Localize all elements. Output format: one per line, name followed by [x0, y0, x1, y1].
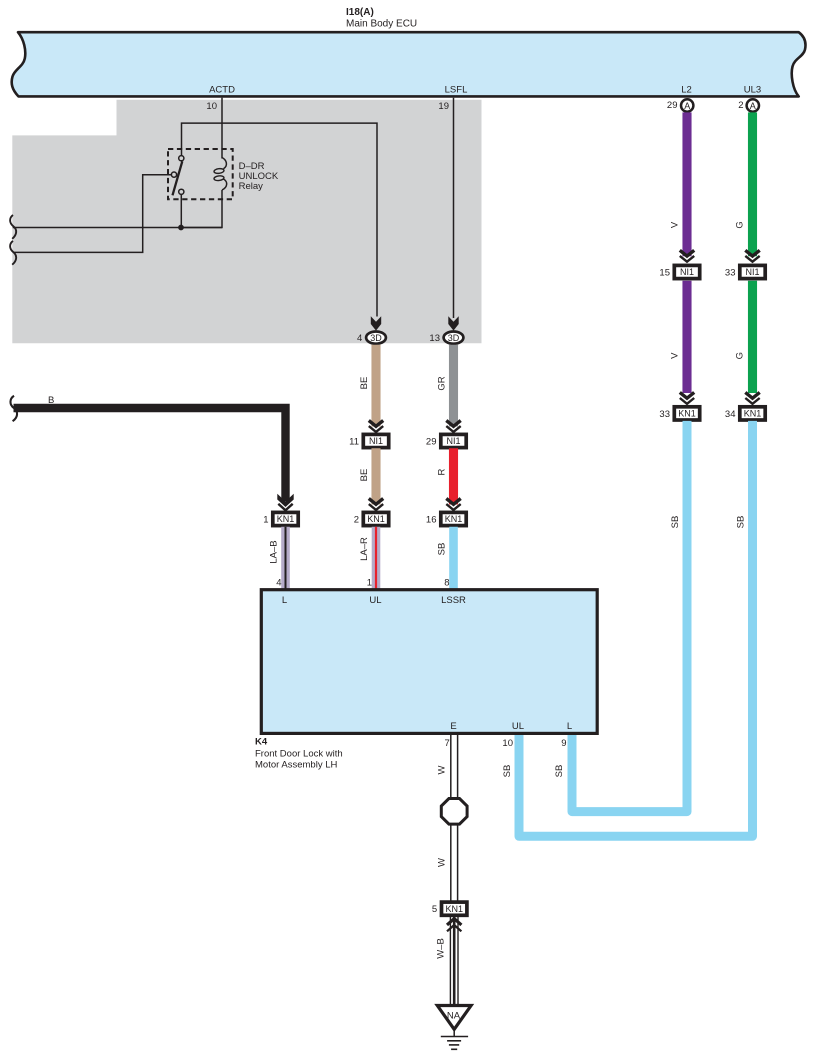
- svg-text:2: 2: [738, 100, 743, 111]
- svg-text:KN1: KN1: [445, 904, 463, 914]
- svg-text:3D: 3D: [448, 333, 460, 343]
- svg-text:4: 4: [357, 333, 362, 344]
- wire BE lower: [371, 448, 380, 504]
- svg-text:11: 11: [349, 437, 359, 448]
- svg-text:Front Door Lock with: Front Door Lock with: [255, 749, 343, 760]
- wire SB short: [449, 527, 458, 590]
- svg-text:NI1: NI1: [446, 436, 460, 446]
- arrow chevrons into KN1 #16: [446, 499, 460, 510]
- svg-text:W–B: W–B: [436, 938, 447, 959]
- svg-text:R: R: [436, 468, 447, 475]
- svg-text:4: 4: [276, 578, 281, 589]
- wire relay bus horizontal: [182, 123, 378, 316]
- relay box D-DR UNLOCK (dashed): [168, 149, 233, 199]
- connector KN1 #34: [740, 407, 765, 420]
- svg-text:E: E: [450, 721, 456, 732]
- connector KN1 #2: [363, 512, 388, 525]
- svg-text:A: A: [684, 101, 690, 111]
- svg-text:KN1: KN1: [367, 514, 385, 524]
- wire G lower: [748, 281, 757, 393]
- arrow chevrons into NI1 #33: [745, 250, 759, 261]
- connector NI1 #11: [363, 434, 388, 447]
- connector NI1 #29: [441, 434, 466, 447]
- svg-text:5: 5: [432, 904, 437, 915]
- svg-text:16: 16: [426, 515, 437, 526]
- svg-text:15: 15: [659, 268, 670, 279]
- connector KN1 #33: [674, 407, 699, 420]
- wire break squiggle B: [10, 396, 17, 421]
- arrow chevrons into NI1 #15: [680, 250, 694, 261]
- svg-text:1: 1: [367, 578, 372, 589]
- svg-text:LA–B: LA–B: [268, 540, 279, 563]
- svg-text:NI1: NI1: [745, 267, 759, 277]
- svg-text:LSFL: LSFL: [445, 85, 468, 96]
- svg-text:V: V: [670, 221, 681, 228]
- svg-text:UL3: UL3: [744, 85, 761, 96]
- svg-text:SB: SB: [436, 543, 447, 556]
- svg-text:9: 9: [561, 738, 566, 749]
- wire LA-R: [372, 527, 381, 590]
- switch blade: [173, 161, 183, 195]
- connector KN1 #1: [273, 512, 298, 525]
- wire left stub to node: [13, 227, 222, 229]
- svg-text:2: 2: [354, 515, 359, 526]
- svg-text:W: W: [437, 858, 448, 867]
- connector circle A #2: [747, 99, 759, 111]
- switch contact top: [179, 156, 184, 161]
- svg-text:KN1: KN1: [445, 514, 463, 524]
- switch contact middle: [171, 172, 176, 177]
- svg-text:SB: SB: [670, 516, 681, 529]
- svg-text:13: 13: [429, 333, 440, 344]
- ground triangle NA: [437, 1006, 471, 1030]
- svg-text:1: 1: [263, 515, 268, 526]
- connector KN1 #5: [442, 902, 467, 915]
- svg-text:G: G: [735, 352, 746, 359]
- wire V lower: [682, 281, 691, 393]
- svg-text:SB: SB: [502, 765, 513, 778]
- ground bar 2: [447, 1040, 461, 1042]
- svg-text:L: L: [282, 595, 287, 606]
- svg-text:L2: L2: [681, 85, 692, 96]
- Main Body ECU band I18(A): [12, 32, 806, 96]
- wire BE upper: [371, 345, 380, 427]
- ECU box K4: [261, 590, 597, 734]
- connector 3D #4: [366, 332, 386, 344]
- svg-text:29: 29: [667, 100, 678, 111]
- connector NI1 #15: [674, 265, 699, 278]
- svg-text:29: 29: [426, 437, 437, 448]
- svg-text:3D: 3D: [370, 333, 382, 343]
- svg-text:10: 10: [206, 101, 217, 112]
- switch contact bottom: [179, 189, 184, 194]
- arrow solid into KN1 #1: [277, 494, 293, 507]
- wire left stub to switch middle: [14, 175, 171, 253]
- svg-text:Motor Assembly LH: Motor Assembly LH: [255, 760, 337, 771]
- svg-text:BE: BE: [359, 469, 370, 482]
- svg-text:A: A: [750, 101, 756, 111]
- arrow chevrons into KN1 #2: [369, 499, 383, 510]
- svg-text:34: 34: [725, 409, 736, 420]
- arrow chevrons into NI1 #11: [369, 421, 383, 432]
- octagon connector: [441, 799, 467, 825]
- connector 3D #13: [444, 332, 464, 344]
- relay coil L (on ACTD wire): [222, 158, 227, 190]
- svg-text:33: 33: [659, 409, 670, 420]
- svg-text:I18(A): I18(A): [346, 7, 374, 18]
- svg-text:K4: K4: [255, 737, 268, 748]
- svg-text:NA: NA: [447, 1010, 461, 1021]
- wire GR upper: [449, 345, 458, 427]
- wire SB from KN1 #33 (inner U): [572, 421, 687, 812]
- wire ACTD pin10 vertical: [221, 98, 223, 159]
- wire break squiggle 1: [10, 215, 16, 239]
- connector NI1 #33: [740, 265, 765, 278]
- ground stem: [453, 1029, 455, 1036]
- svg-text:UL: UL: [512, 721, 524, 732]
- gray highlight region: [12, 100, 481, 343]
- connector circle A #29: [681, 99, 693, 111]
- wire LSFL pin19 vertical: [453, 98, 455, 318]
- svg-text:Relay: Relay: [239, 181, 264, 192]
- arrow chevrons into KN1 #34: [745, 392, 759, 403]
- wire R: [449, 448, 458, 504]
- ground bar 3: [449, 1044, 459, 1046]
- svg-text:KN1: KN1: [744, 409, 762, 419]
- svg-text:SB: SB: [736, 516, 747, 529]
- svg-text:KN1: KN1: [678, 409, 696, 419]
- svg-text:V: V: [670, 352, 681, 359]
- svg-text:7: 7: [445, 738, 450, 749]
- svg-text:LSSR: LSSR: [441, 595, 466, 606]
- connector KN1 #16: [441, 512, 466, 525]
- wire W upper (double line): [451, 733, 458, 797]
- wire V upper: [682, 112, 691, 256]
- svg-text:W: W: [437, 765, 448, 774]
- wire W lower (double line): [451, 826, 458, 903]
- wire B thick black: [14, 408, 286, 501]
- svg-text:G: G: [735, 221, 746, 228]
- wire break squiggle 2: [10, 241, 16, 265]
- wire SB from KN1 #34 (outer U): [519, 421, 753, 836]
- ground bar 1: [441, 1036, 468, 1038]
- wire switch bottom to node: [180, 195, 182, 228]
- svg-text:GR: GR: [436, 376, 447, 390]
- svg-text:L: L: [567, 721, 572, 732]
- wire W-B (double line with center stripe): [450, 917, 458, 1004]
- arrow solid into 3D (right): [448, 316, 458, 330]
- wire LA-B: [281, 527, 290, 590]
- svg-text:SB: SB: [554, 765, 565, 778]
- wire coil bottom to node: [181, 190, 222, 228]
- svg-text:NI1: NI1: [369, 436, 383, 446]
- svg-text:UL: UL: [369, 595, 381, 606]
- arrow chevrons up into KN1 #5: [447, 919, 461, 932]
- wire G upper: [748, 112, 757, 256]
- svg-text:10: 10: [502, 738, 513, 749]
- svg-text:NI1: NI1: [680, 267, 694, 277]
- svg-text:33: 33: [725, 268, 736, 279]
- arrow chevrons into KN1 #33: [680, 392, 694, 403]
- svg-text:ACTD: ACTD: [209, 85, 235, 96]
- svg-text:BE: BE: [359, 377, 370, 390]
- svg-text:19: 19: [438, 101, 449, 112]
- svg-text:B: B: [48, 395, 54, 406]
- arrow solid into 3D (left): [371, 316, 381, 330]
- svg-text:Main Body ECU: Main Body ECU: [346, 18, 417, 29]
- svg-text:LA–R: LA–R: [359, 537, 370, 561]
- arrow chevrons into NI1 #29: [446, 421, 460, 432]
- svg-text:KN1: KN1: [277, 514, 295, 524]
- ground bar 4: [451, 1048, 457, 1050]
- junction node dot: [178, 225, 184, 231]
- svg-text:8: 8: [444, 578, 449, 589]
